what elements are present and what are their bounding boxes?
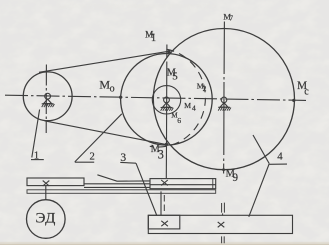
middle vertical center line / shaft: [165, 45, 168, 179]
bolt mark x on right plate: [161, 180, 168, 185]
svg-text:Управление: Управление: [240, 114, 275, 122]
svg-text:о: о: [110, 83, 115, 94]
frame: right plate: [150, 179, 216, 189]
frame: lower rail: [27, 190, 216, 194]
motor stem: [45, 186, 47, 200]
svg-text:приведения: приведения: [240, 199, 275, 207]
junction dot: belt / rim / shaft: [165, 143, 168, 146]
ghost bleed-through text: [20, 2, 275, 207]
belt bottom run: [45, 121, 167, 145]
svg-text:с: с: [304, 86, 309, 97]
svg-text:вившемся: вившемся: [228, 54, 258, 62]
pulley 4 rim (big right circle): [153, 29, 294, 170]
svg-text:скорости и ускорения звеньев м: скорости и ускорения звеньев механизма п…: [60, 2, 217, 10]
svg-text:движении: движении: [236, 66, 266, 74]
underline of label 2: [75, 161, 94, 163]
leader line of label 4 upper branch: [253, 135, 269, 164]
x mark in inner cell: [161, 221, 168, 226]
svg-text:определить момент: определить момент: [20, 164, 78, 172]
leader line of label 1: [32, 110, 40, 158]
coupling below machine box: [222, 236, 225, 243]
junction dot: belt at middle top: [167, 50, 170, 53]
pulley 1 (left small pulley): [23, 72, 72, 121]
svg-text:4: 4: [277, 151, 283, 163]
svg-text:1: 1: [34, 150, 39, 161]
svg-text:М: М: [184, 101, 191, 110]
bearing pivot of pulley 1: [42, 93, 55, 107]
coupling dashes mid shaft: [163, 195, 165, 211]
svg-text:7: 7: [230, 15, 234, 23]
leader line of label 4 lower branch: [249, 164, 269, 217]
coupling at big pulley shaft: [222, 203, 225, 216]
big pulley vertical center line: [223, 22, 226, 174]
bearing pivot of pulley 4: [218, 97, 231, 111]
svg-text:9: 9: [232, 172, 238, 184]
underline of label 4: [269, 163, 287, 165]
frame: right plate end divider: [212, 178, 214, 188]
pulley 2 hub circle: [152, 86, 180, 114]
bottom tan strip: [0, 242, 329, 245]
left pulley vertical center line: [45, 65, 47, 134]
x mark in box right part: [218, 222, 225, 227]
machine box inner cell: [148, 215, 180, 229]
svg-text:ЭД: ЭД: [36, 210, 56, 226]
frame: step: [97, 175, 150, 181]
svg-text:4: 4: [192, 104, 196, 113]
svg-text:3: 3: [120, 152, 126, 164]
svg-text:6: 6: [177, 116, 181, 125]
machine box (element 4 housing): [148, 215, 292, 233]
leader line of label 3 to machine box: [136, 163, 157, 215]
bearing pivot of pulley 2: [161, 97, 174, 111]
leader line of label 2: [75, 114, 122, 162]
svg-text:3: 3: [158, 148, 164, 162]
svg-text:5: 5: [172, 70, 178, 82]
shaft below frame to machine: [160, 191, 162, 215]
svg-text:2: 2: [203, 84, 207, 93]
alternate pulley (dashed circle): [150, 49, 206, 147]
underline of label 3: [120, 161, 136, 164]
bolt mark x on motor plate: [43, 181, 50, 186]
svg-text:машины: машины: [250, 126, 275, 134]
junction dot: middle rim on axis: [119, 96, 122, 99]
pulley 2 rim (middle solid circle): [121, 54, 213, 146]
junction dot: axis at big rim right: [292, 99, 295, 102]
frame: middle rails: [84, 183, 150, 185]
horizontal axis center line: [5, 95, 306, 100]
belt top run: [39, 51, 170, 72]
frame: left mounting plate: [27, 178, 84, 186]
underline of label 1: [31, 159, 44, 161]
svg-text:2: 2: [90, 152, 95, 163]
motor ЭД circle: [27, 200, 66, 239]
junction dot: big rim bottom: [222, 168, 225, 171]
